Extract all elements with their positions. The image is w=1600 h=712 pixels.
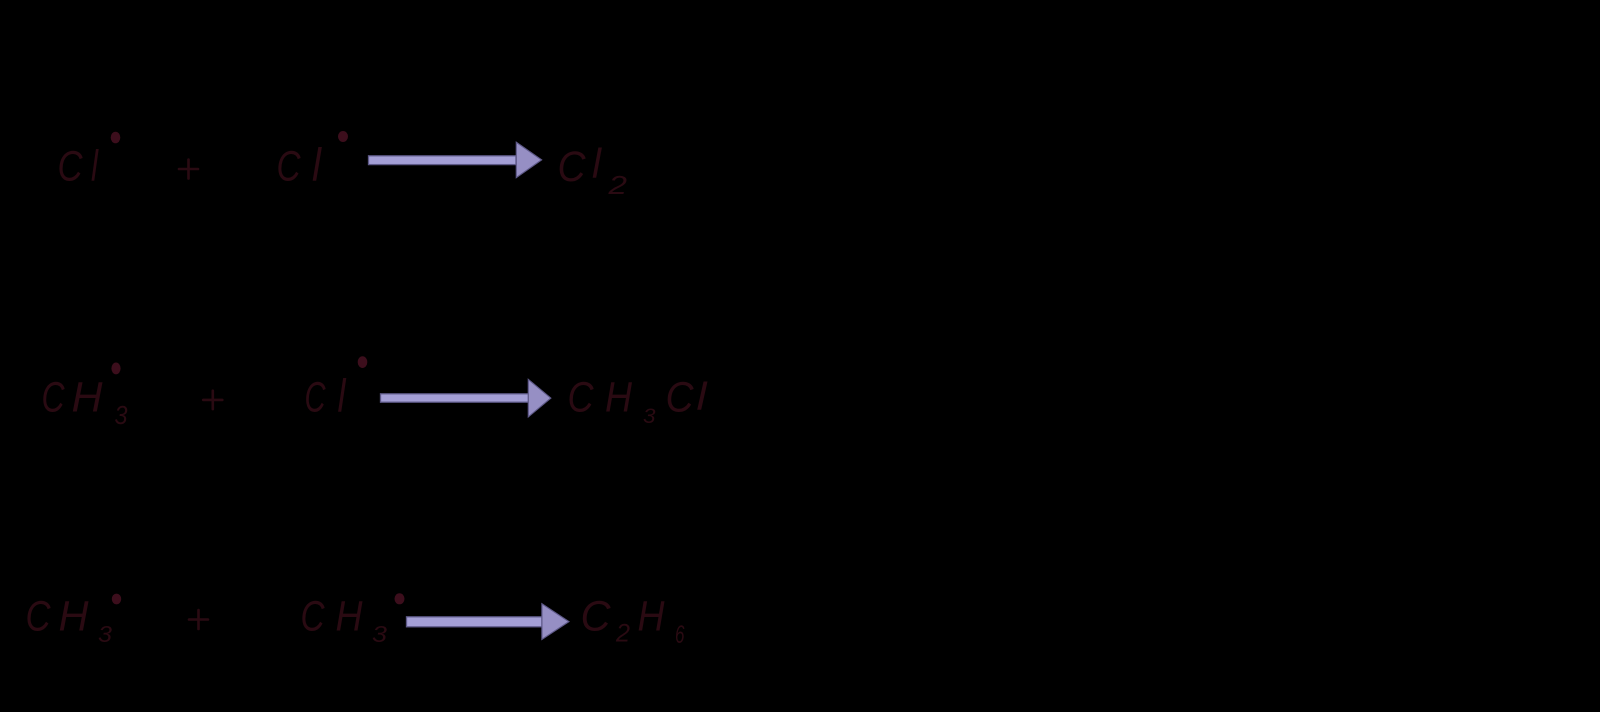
row 3: reactant CH3 radical #1 [26,593,122,648]
row 3: product C2H6 [581,593,685,650]
row 3: plus sign [189,610,208,629]
svg-text:3: 3 [643,405,656,428]
svg-text:H: H [605,374,633,422]
row 2: plus sign [203,391,222,409]
svg-text:C: C [568,374,595,422]
svg-text:H: H [638,593,666,641]
svg-text:l: l [312,139,323,191]
svg-text:2: 2 [615,620,630,648]
svg-text:C: C [301,593,326,641]
svg-text:l: l [697,376,709,419]
svg-text:l: l [91,142,99,191]
row 1: reaction arrow [369,142,542,177]
row 2: reaction arrow [381,379,551,417]
row 1: reactant Cl radical #2 [277,131,349,191]
svg-text:C: C [666,374,695,422]
row 1: reactant Cl radical #1 [58,132,121,191]
svg-text:C: C [42,374,66,422]
svg-text:H: H [72,374,104,422]
svg-text:l: l [338,370,347,422]
row 2: product CH3Cl [568,374,709,429]
svg-text:6: 6 [675,621,685,649]
svg-text:C: C [558,143,587,191]
svg-text:H: H [59,593,90,641]
svg-text:3: 3 [115,400,128,430]
svg-text:C: C [26,593,52,641]
svg-text:H: H [336,593,364,641]
row 3: reactant CH3 radical #2 [301,593,405,648]
svg-text:C: C [581,593,612,641]
svg-text:C: C [305,374,327,422]
row 2: reactant Cl radical [305,356,368,421]
svg-text:C: C [277,143,302,191]
svg-text:3: 3 [372,621,387,647]
row 1: plus sign [179,160,198,179]
row 2: reactant CH3 radical [42,363,128,431]
row 1: product Cl2 [558,140,628,200]
svg-text:C: C [58,143,84,191]
svg-text:2: 2 [607,170,627,200]
row 3: reaction arrow [407,604,569,640]
svg-text:3: 3 [98,621,112,647]
